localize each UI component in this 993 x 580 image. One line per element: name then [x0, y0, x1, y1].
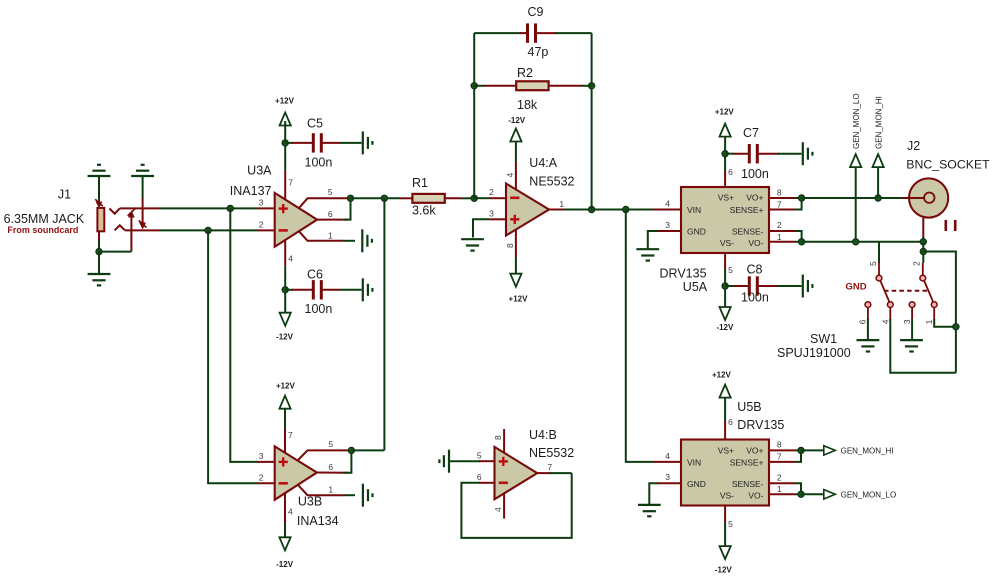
jack J1 ring contact: [115, 225, 125, 230]
svg-text:U5A: U5A: [683, 280, 708, 294]
ground (rotated) C8: [802, 275, 804, 298]
jack J1 tip pin arrow: [98, 201, 100, 205]
capacitor C5: [285, 142, 293, 144]
svg-text:6: 6: [728, 417, 733, 427]
svg-text:5: 5: [477, 450, 482, 460]
svg-text:-12V: -12V: [276, 560, 294, 569]
op-amp U4:B minus: [499, 481, 508, 484]
ground (rotated) C6: [362, 278, 364, 301]
wire VO+ row: [802, 197, 902, 199]
pin 7 U4B: [537, 472, 551, 474]
output arrow GEN_MON_HI: [824, 446, 835, 455]
svg-text:U4:B: U4:B: [529, 428, 557, 442]
node row1 to U3B: [227, 205, 233, 211]
svg-text:7: 7: [547, 462, 552, 472]
jack J1 sleeve body: [97, 208, 104, 231]
power -12V arrow U3A: [280, 313, 291, 326]
svg-text:1: 1: [328, 230, 333, 240]
pin 1 U4A: [549, 209, 563, 211]
svg-text:18k: 18k: [517, 98, 538, 112]
svg-text:GEN_MON_LO: GEN_MON_LO: [852, 93, 861, 149]
svg-text:VO-: VO-: [748, 490, 763, 500]
op-amp U4:B body: [495, 447, 538, 499]
pin 7 wire U5B: [769, 461, 796, 463]
wire to R1: [400, 197, 412, 199]
svg-text:J2: J2: [907, 139, 920, 153]
IC U5B body: [681, 440, 769, 506]
pin 5 stem U5A: [724, 253, 726, 270]
wire feedback right vertical: [591, 33, 593, 209]
pin 4 stem U3B: [284, 493, 286, 523]
pin 2 wire U5B: [769, 482, 796, 484]
ground U4A pin3: [461, 238, 484, 240]
svg-text:8: 8: [493, 435, 503, 440]
node C6 branch: [282, 287, 288, 293]
pin 3 wire U5B: [657, 482, 681, 484]
node C5 branch: [282, 140, 288, 146]
resistor R2: [516, 81, 548, 90]
ground (rotated) U3A pin1: [361, 229, 363, 252]
svg-text:BNC_SOCKET: BNC_SOCKET: [906, 157, 990, 171]
svg-text:100n: 100n: [741, 291, 769, 305]
node shield junction: [920, 239, 926, 245]
svg-text:+12V: +12V: [712, 370, 732, 379]
node U4A pin2 junction: [471, 195, 477, 201]
svg-text:4: 4: [880, 319, 890, 324]
svg-text:5: 5: [328, 187, 333, 197]
wire jack ground stem: [98, 252, 100, 274]
pin 5 stem U5B: [724, 506, 726, 523]
svg-text:DRV135: DRV135: [737, 418, 784, 432]
ground (flipped) B at jack switch: [131, 175, 154, 177]
node GEN_MON_HI tap: [875, 195, 881, 201]
ground U5B pin3: [638, 504, 661, 506]
ground SW1 pin6: [857, 339, 880, 341]
svg-text:VIN: VIN: [687, 205, 701, 215]
op-amp U3A body: [275, 193, 317, 247]
wire row2 vertical to U3B pin2: [208, 230, 258, 483]
svg-text:INA134: INA134: [297, 514, 339, 528]
power +12V arrow U5B: [720, 385, 731, 398]
pin 7 stem U3A: [284, 171, 286, 200]
svg-text:-12V: -12V: [715, 565, 733, 574]
wire row1: [160, 207, 258, 209]
svg-text:DRV135: DRV135: [660, 266, 707, 280]
wire pin6 feedback U3B: [344, 450, 352, 472]
node U5B branch: [623, 206, 629, 212]
wire to GEN_MON_HI arrow: [801, 449, 824, 451]
node shield to right loop: [920, 248, 926, 254]
svg-text:6: 6: [728, 167, 733, 177]
svg-text:3: 3: [902, 319, 912, 324]
svg-text:R1: R1: [412, 176, 428, 190]
ground U5A pin3: [636, 248, 659, 250]
pin 4 stem SW1: [889, 308, 891, 321]
op-amp U3A plus: [279, 207, 288, 209]
pin 3 stem SW1: [911, 308, 913, 321]
svg-text:VS-: VS-: [720, 238, 734, 248]
jack J1 shield pin up arrow: [130, 215, 132, 252]
wire to GEN_MON_LO arrow: [801, 493, 824, 495]
svg-text:8: 8: [777, 440, 782, 450]
node C7 branch: [722, 151, 728, 157]
svg-text:1: 1: [328, 484, 333, 494]
svg-text:C7: C7: [743, 126, 759, 140]
pin 5 stem SW1: [878, 242, 880, 263]
node VO+ tie U5A: [798, 195, 804, 201]
IC U5A body: [681, 187, 769, 253]
switch lever pole2: [924, 281, 933, 302]
switch coupling dashed: [884, 290, 929, 292]
wire +12V stem U3A: [284, 121, 286, 171]
svg-text:VO+: VO+: [746, 445, 763, 455]
wire R2 left: [474, 85, 484, 87]
wire pin6 feedback: [344, 198, 351, 219]
svg-text:GND: GND: [687, 227, 706, 237]
contact circle pin1: [931, 302, 937, 308]
node C8 branch: [722, 283, 728, 289]
wire GEN_MON_HI vertical: [877, 168, 879, 199]
svg-text:J1: J1: [58, 188, 71, 202]
wire pin1 to ground: [344, 240, 355, 242]
svg-text:8: 8: [777, 187, 782, 197]
wire ground B stem: [142, 176, 144, 198]
op-amp U4:A plus: [510, 218, 519, 220]
svg-text:SPUJ191000: SPUJ191000: [777, 346, 851, 360]
pin 8 stub U5A: [769, 197, 796, 199]
svg-text:+12V: +12V: [275, 97, 295, 106]
svg-text:SENSE+: SENSE+: [730, 205, 764, 215]
ground (rotated) U3B pin1: [362, 484, 364, 507]
power +12V arrow U3A: [280, 113, 291, 126]
svg-text:SENSE+: SENSE+: [730, 458, 764, 468]
wire branch to U3B: [383, 198, 385, 450]
pin 6 stem U5B: [724, 421, 726, 440]
svg-text:C8: C8: [747, 263, 763, 277]
node GEN_MON_HI tie: [798, 447, 804, 453]
svg-text:+12V: +12V: [276, 382, 296, 391]
power -12V arrow U4A: [510, 129, 521, 142]
power -12V arrow U5A: [720, 307, 731, 320]
svg-text:U5B: U5B: [737, 400, 761, 414]
contact circle pin2: [920, 275, 926, 281]
svg-text:7: 7: [777, 452, 782, 462]
power arrow GEN_MON_HI net: [873, 154, 884, 167]
svg-text:3: 3: [665, 472, 670, 482]
contact circle pin6: [865, 302, 871, 308]
pin 5 U3B: [298, 450, 352, 460]
capacitor C9: [474, 32, 521, 34]
svg-text:U4:A: U4:A: [529, 156, 557, 170]
wire shield down: [922, 242, 924, 263]
svg-text:100n: 100n: [305, 302, 333, 316]
wire U3A out: [351, 197, 401, 199]
svg-text:GEN_MON_HI: GEN_MON_HI: [841, 447, 894, 456]
svg-text:6: 6: [477, 472, 482, 482]
pin 3 wire U5A: [657, 230, 681, 232]
wire sleeve junction to shield arrow: [99, 251, 131, 253]
svg-text:GEN_MON_LO: GEN_MON_LO: [841, 490, 897, 499]
pin 2 stem SW1: [922, 263, 924, 275]
svg-text:GND: GND: [846, 282, 867, 293]
svg-text:2: 2: [777, 472, 782, 482]
contact circle pin5: [876, 275, 882, 281]
svg-text:VIN: VIN: [687, 458, 701, 468]
op-amp U3B body: [275, 446, 317, 499]
capacitor C8: [725, 285, 734, 287]
wire row1 jack tip: [120, 207, 160, 209]
wire node to pin2: [474, 197, 490, 199]
pin 2 stub U3A: [258, 229, 275, 231]
node U3A out tie: [347, 195, 353, 201]
pin 6 stem U5A: [724, 171, 726, 187]
svg-text:6: 6: [328, 462, 333, 472]
wire VO- row: [802, 241, 924, 243]
pin 3 stub U3A: [258, 207, 275, 209]
svg-text:3: 3: [665, 220, 670, 230]
contact circle pin4: [887, 302, 893, 308]
svg-text:U3B: U3B: [298, 494, 322, 508]
svg-text:2: 2: [259, 220, 264, 230]
svg-text:-12V: -12V: [716, 323, 734, 332]
op-amp U4:A minus: [510, 197, 519, 200]
svg-text:3: 3: [489, 208, 494, 218]
pin 2 stub U4A: [490, 197, 506, 199]
pin 4 stem U4B: [503, 494, 505, 519]
connector J2 outer: [909, 178, 948, 217]
svg-text:C6: C6: [307, 267, 323, 281]
svg-text:-12V: -12V: [276, 333, 294, 342]
pin 5 U3A: [299, 198, 351, 208]
svg-text:1: 1: [777, 232, 782, 242]
op-amp U3A minus: [279, 229, 288, 232]
contact circle pin3: [909, 302, 915, 308]
svg-text:4: 4: [505, 173, 515, 178]
svg-text:100n: 100n: [305, 156, 333, 170]
svg-text:C9: C9: [528, 5, 544, 19]
pin 8 stub U5B: [769, 449, 796, 451]
svg-text:VS+: VS+: [718, 193, 734, 203]
svg-text:3: 3: [259, 451, 264, 461]
svg-text:4: 4: [665, 199, 670, 209]
svg-text:8: 8: [505, 243, 515, 248]
pin 6 wire U4B: [479, 482, 495, 484]
wire row1 vertical to U3B pin3: [230, 208, 258, 462]
pin 1 stem SW1: [933, 308, 935, 321]
svg-text:NE5532: NE5532: [529, 175, 574, 189]
svg-text:C5: C5: [307, 117, 323, 131]
pin 2 wire U5A: [769, 230, 796, 232]
pin 4 stem U4A: [515, 162, 517, 190]
node feedback right R2: [588, 83, 594, 89]
svg-text:U3A: U3A: [247, 164, 272, 178]
wire row2 jack ring: [125, 229, 160, 231]
pin 8 stem U4B: [503, 429, 505, 453]
wire pin1 to ground U3B: [345, 494, 356, 496]
jack J1 switch pin with down arrow: [142, 198, 144, 225]
capacitor C7: [725, 153, 734, 155]
svg-text:5: 5: [328, 439, 333, 449]
op-amp U4:B plus: [499, 460, 508, 462]
svg-text:5: 5: [728, 265, 733, 275]
resistor R1: [412, 194, 444, 203]
svg-text:GND: GND: [687, 479, 706, 489]
svg-text:47p: 47p: [528, 45, 549, 59]
ground at jack bottom: [88, 273, 111, 275]
svg-text:1: 1: [777, 484, 782, 494]
svg-text:VO+: VO+: [746, 193, 763, 203]
svg-text:1: 1: [924, 319, 934, 324]
node feedback left R2: [471, 83, 477, 89]
svg-text:R2: R2: [517, 66, 533, 80]
pin 3 stub U3B: [258, 461, 275, 463]
power arrow GEN_MON_LO net: [850, 154, 861, 167]
svg-text:1: 1: [559, 199, 564, 209]
wire R2 right: [549, 85, 583, 87]
wire -12V stem U3A: [284, 266, 286, 314]
svg-text:4: 4: [288, 506, 293, 516]
svg-text:6: 6: [857, 319, 867, 324]
node jack sleeve junction: [96, 248, 102, 254]
wire pin8 to node: [796, 197, 802, 199]
power -12V arrow U3B: [279, 537, 290, 550]
svg-text:+12V: +12V: [715, 107, 735, 116]
pin 1 U3A: [299, 231, 344, 241]
ground (rotated) C7: [802, 142, 804, 165]
svg-text:2: 2: [777, 220, 782, 230]
svg-text:3.6k: 3.6k: [412, 204, 436, 218]
wire row2: [160, 229, 258, 231]
node right loop pin1: [953, 324, 959, 330]
svg-text:7: 7: [288, 178, 293, 188]
pin 1 U3B: [298, 485, 345, 495]
pin 6 U3B: [317, 472, 349, 474]
svg-text:2: 2: [259, 472, 264, 482]
svg-text:NE5532: NE5532: [529, 446, 574, 460]
wire ground A stem: [98, 176, 100, 201]
svg-text:6: 6: [328, 209, 333, 219]
ground (rotated) C5: [362, 131, 364, 154]
svg-text:5: 5: [868, 261, 878, 266]
pin 3 wire U4A: [490, 218, 506, 220]
svg-text:5: 5: [728, 519, 733, 529]
svg-text:VS-: VS-: [720, 490, 734, 500]
svg-text:SENSE-: SENSE-: [732, 479, 764, 489]
ground SW1 pin3: [900, 339, 923, 341]
wire sleeve to ground: [98, 231, 100, 251]
ground (rotated left) U4B pin5: [448, 450, 450, 473]
power -12V arrow U5B: [720, 546, 731, 559]
wire R1 to U4A: [445, 197, 461, 199]
power +12V arrow U3B: [279, 396, 290, 409]
op-amp U3B minus: [279, 482, 288, 485]
pin 4 stub U5B: [654, 461, 681, 463]
svg-text:6.35MM JACK: 6.35MM JACK: [4, 212, 85, 226]
pin 5 wire U4B: [449, 460, 480, 462]
svg-text:7: 7: [288, 430, 293, 440]
node row2 to U3B: [205, 227, 211, 233]
connector J2 inner: [924, 193, 934, 203]
wire U3B out up: [351, 449, 384, 451]
svg-text:INA137: INA137: [230, 184, 272, 198]
svg-text:SW1: SW1: [810, 332, 837, 346]
pin 1 stub U5A: [769, 241, 796, 243]
wire feedback left vertical: [473, 33, 475, 198]
power +12V arrow U4A: [510, 274, 521, 287]
svg-text:+12V: +12V: [509, 294, 529, 303]
output arrow GEN_MON_LO: [824, 490, 835, 499]
pin J2 shield: [922, 217, 924, 238]
svg-text:2: 2: [489, 187, 494, 197]
svg-text:4: 4: [493, 507, 503, 512]
node U3A out branch: [381, 195, 387, 201]
pin 4 stem U3A: [284, 240, 286, 266]
svg-text:7: 7: [777, 199, 782, 209]
pin 7 wire U5A: [769, 209, 796, 211]
pin 6 stem SW1: [867, 308, 869, 321]
ground (flipped) at jack tip: [88, 175, 111, 177]
pin 2 stub U3B: [258, 482, 275, 484]
svg-text:From soundcard: From soundcard: [7, 225, 78, 235]
wire GEN_MON_LO vertical: [855, 168, 857, 242]
node feedback tap: [588, 206, 594, 212]
pin 7 stem U3B: [284, 428, 286, 453]
switch lever pole1: [880, 281, 889, 302]
svg-text:4: 4: [665, 451, 670, 461]
connector J2 prongs: [944, 220, 947, 231]
node VO- tie U5A: [798, 239, 804, 245]
svg-text:VO-: VO-: [748, 238, 763, 248]
svg-text:3: 3: [259, 198, 264, 208]
pin 8 stem U4A: [515, 230, 517, 258]
svg-text:100n: 100n: [741, 167, 769, 181]
op-amp U3B plus: [279, 461, 288, 463]
svg-text:SENSE-: SENSE-: [732, 227, 764, 237]
node GEN_MON_LO tie: [798, 491, 804, 497]
power +12V arrow U5A: [720, 124, 731, 137]
svg-text:2: 2: [912, 261, 922, 266]
jack J1 tip contact: [109, 208, 119, 213]
wire branch to U5B VIN: [626, 210, 654, 462]
op-amp U4:A body: [506, 184, 549, 236]
wire right loop top: [923, 252, 956, 373]
capacitor C6: [285, 289, 293, 291]
svg-text:GEN_MON_HI: GEN_MON_HI: [874, 96, 883, 149]
pin J2 center: [902, 197, 925, 199]
wire U4A out: [563, 209, 654, 211]
svg-text:4: 4: [288, 254, 293, 264]
pin 6 U3A: [317, 219, 348, 221]
svg-text:VS+: VS+: [718, 445, 734, 455]
svg-text:-12V: -12V: [508, 116, 526, 125]
pin 4 stub U5A: [654, 209, 681, 211]
node U3B out tie: [348, 447, 354, 453]
pin 1 stub U5B: [769, 493, 796, 495]
node GEN_MON_LO tap: [853, 239, 859, 245]
